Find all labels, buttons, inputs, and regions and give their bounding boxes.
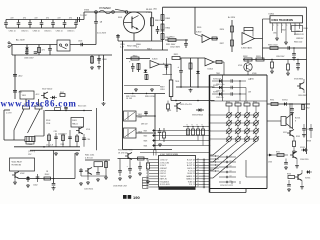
right column parts bbox=[302, 104, 310, 110]
svg-text:R9: R9 bbox=[146, 165, 148, 167]
rectifier row 1 bbox=[212, 79, 246, 83]
rail y48 drop bbox=[292, 47, 296, 60]
svg-text:C9: C9 bbox=[197, 177, 199, 179]
diode VD955 with label bbox=[300, 147, 309, 161]
svg-text:VD956: VD956 bbox=[305, 178, 310, 180]
svg-text:472: 472 bbox=[23, 17, 26, 19]
svg-text:R840: R840 bbox=[304, 28, 308, 30]
cap near V953 bbox=[287, 180, 291, 192]
opto wire bbox=[255, 19, 263, 60]
capacitor C003 bbox=[52, 179, 56, 191]
svg-text:C961 470u: C961 470u bbox=[216, 84, 224, 86]
svg-text:C812 360V: C812 360V bbox=[170, 47, 181, 49]
speaker cluster labels bbox=[268, 132, 300, 164]
svg-text:4.3M: 4.3M bbox=[138, 117, 143, 119]
svg-text:C116: C116 bbox=[87, 139, 91, 141]
svg-text:1 VDD 5V: 1 VDD 5V bbox=[160, 160, 169, 162]
mains wire lower bbox=[12, 45, 112, 56]
left board extra labels bbox=[6, 112, 67, 136]
secondary board outer bottom corner bbox=[210, 189, 247, 193]
svg-text:1K 473 560: 1K 473 560 bbox=[118, 152, 128, 154]
ladder capacitor C907 bbox=[74, 20, 78, 29]
ground sym 2 bbox=[150, 88, 154, 92]
svg-text:8 AFT-IN: 8 AFT-IN bbox=[160, 178, 168, 181]
svg-text:C9: C9 bbox=[197, 167, 199, 169]
label AC220V bbox=[16, 39, 25, 42]
power switch S801 bbox=[115, 9, 128, 13]
secondary board frame left bus bbox=[209, 75, 211, 193]
resistor R821 bbox=[172, 54, 180, 59]
IR transistor V101 bbox=[76, 127, 90, 134]
svg-text:C962 100u: C962 100u bbox=[216, 91, 224, 93]
labels above sound rail bbox=[270, 100, 288, 102]
connector to CRT bbox=[78, 15, 89, 22]
capacitor C806 on AC rail bbox=[24, 52, 34, 60]
IC901 left pin stubs bbox=[146, 160, 158, 189]
svg-text:6: 6 bbox=[291, 25, 292, 27]
svg-text:2: 2 bbox=[273, 25, 274, 27]
svg-text:C952: C952 bbox=[306, 108, 310, 110]
matrix fan wire 3 bbox=[210, 141, 248, 170]
feedback resistor R828 bbox=[244, 28, 253, 37]
secondary board frame right bbox=[266, 75, 268, 189]
board bottom rail 1 bbox=[14, 146, 80, 148]
svg-text:9V REG IN: 9V REG IN bbox=[12, 165, 22, 167]
left spine wire bbox=[14, 55, 16, 99]
svg-text:R818 C816: R818 C816 bbox=[145, 96, 155, 98]
mains line with fuse bbox=[84, 11, 152, 13]
cap C112 on row bbox=[64, 107, 68, 111]
svg-text:G-OUT 27: G-OUT 27 bbox=[187, 162, 195, 164]
diode VD402 bbox=[50, 96, 57, 100]
svg-text:B-OUT 26: B-OUT 26 bbox=[187, 165, 195, 167]
rect caps to rail bbox=[240, 81, 246, 101]
svg-text:C9: C9 bbox=[197, 158, 199, 160]
labels near regulator bbox=[28, 151, 36, 156]
diode VD954 bbox=[284, 102, 293, 106]
matrix transistor VS33 bbox=[244, 128, 250, 136]
capacitor C810 bbox=[184, 40, 188, 48]
svg-text:BAND2 21: BAND2 21 bbox=[187, 178, 195, 181]
ladder capacitor C901 bbox=[4, 20, 8, 29]
svg-text:C9: C9 bbox=[230, 181, 232, 183]
rectifier row 2 bbox=[212, 85, 246, 89]
svg-text:R9: R9 bbox=[146, 170, 148, 172]
T403 output wire bbox=[136, 132, 156, 134]
label 360V bbox=[170, 47, 181, 49]
zener ZD801 bbox=[38, 45, 45, 56]
svg-text:C901 1n: C901 1n bbox=[9, 31, 16, 33]
svg-text:R011 C011: R011 C011 bbox=[85, 155, 94, 157]
drop cap 1 bbox=[118, 159, 122, 181]
matrix fan wire 2 bbox=[210, 141, 239, 162]
svg-text:C824 16V: C824 16V bbox=[276, 56, 285, 58]
keyline row SW1 bbox=[144, 129, 211, 135]
labels under mid rail bbox=[126, 96, 155, 100]
transistor V952 bbox=[290, 152, 297, 159]
IC801 label above bbox=[269, 14, 275, 16]
dropper resistor R802 bbox=[90, 55, 94, 70]
ecap C820 bbox=[144, 111, 148, 116]
svg-text:7 KEY-2: 7 KEY-2 bbox=[160, 176, 166, 178]
top distribution rail bbox=[163, 6, 307, 8]
relay RL801 box bbox=[57, 40, 70, 51]
svg-text:R821: R821 bbox=[174, 54, 179, 56]
secondary board frame bottom bbox=[210, 188, 268, 190]
IC801 pin to rail y48 bbox=[276, 43, 278, 48]
V952 emitter ground bbox=[295, 159, 299, 169]
sense wire up bbox=[53, 150, 55, 178]
svg-text:R827: R827 bbox=[220, 43, 224, 45]
svg-text:R812 330K: R812 330K bbox=[127, 45, 138, 47]
matrix fan wire 1 bbox=[210, 141, 230, 155]
svg-text:R819: R819 bbox=[160, 87, 165, 89]
svg-text:T401: T401 bbox=[22, 95, 26, 97]
svg-text:472: 472 bbox=[10, 17, 13, 19]
comb part 2 bbox=[54, 131, 58, 147]
svg-text:+: + bbox=[129, 61, 131, 64]
svg-text:R814: R814 bbox=[133, 55, 138, 57]
svg-text:C803: C803 bbox=[78, 41, 82, 43]
svg-text:POWER: POWER bbox=[99, 6, 111, 10]
svg-text:8: 8 bbox=[300, 25, 301, 27]
chopper drive vertical bus bbox=[122, 41, 124, 150]
inner rail y101 bbox=[211, 100, 267, 102]
svg-text:IC803: IC803 bbox=[152, 59, 158, 61]
svg-text:AC2: AC2 bbox=[19, 75, 24, 78]
svg-text:R953: R953 bbox=[296, 136, 300, 138]
collector wire v155 bbox=[154, 94, 156, 150]
label 7.4-1.7 bbox=[46, 144, 54, 146]
resistor R002 bbox=[44, 171, 51, 180]
label C819 under rail bbox=[180, 104, 193, 106]
svg-text:C115: C115 bbox=[54, 131, 58, 133]
V951 collector wire bbox=[289, 103, 290, 128]
bus stubs right of frame bbox=[210, 155, 220, 171]
V953 collector parts bbox=[302, 170, 312, 180]
svg-text:C828 5V: C828 5V bbox=[296, 38, 304, 40]
matrix transistor VS21 bbox=[235, 112, 241, 120]
ground rail under IC803a bbox=[124, 85, 160, 87]
mains wire upper bbox=[12, 44, 57, 46]
rectifier row value labels bbox=[216, 79, 252, 99]
cluster B top wire bbox=[118, 158, 149, 160]
V953 emitter ground bbox=[300, 181, 304, 190]
svg-text:T801: T801 bbox=[175, 81, 179, 83]
matrix transistor VS42 bbox=[253, 120, 259, 128]
svg-text:R811 360V: R811 360V bbox=[166, 44, 176, 46]
IC901 bottom bar bbox=[159, 187, 196, 190]
svg-text:C808: C808 bbox=[102, 59, 107, 61]
svg-text:R402: R402 bbox=[60, 92, 64, 94]
resistor R801 on switched line bbox=[151, 12, 161, 41]
regulator box bbox=[10, 158, 35, 171]
svg-text:4OC: 4OC bbox=[36, 94, 41, 96]
svg-text:TUNE 20: TUNE 20 bbox=[188, 181, 195, 183]
svg-text:+: + bbox=[163, 62, 165, 65]
capacitor C804 bbox=[48, 45, 52, 56]
svg-text:4: 4 bbox=[282, 25, 283, 27]
right border wire bbox=[306, 7, 308, 154]
svg-text:5: 5 bbox=[286, 25, 287, 27]
comparator IC803a bbox=[150, 59, 160, 69]
svg-text:C905 1n: C905 1n bbox=[56, 31, 63, 33]
slanted wire 2 bbox=[28, 109, 41, 133]
svg-text:V951: V951 bbox=[283, 132, 287, 134]
svg-text:48V 14V: 48V 14V bbox=[141, 124, 148, 126]
svg-text:R9: R9 bbox=[244, 101, 246, 103]
svg-text:C903 1n: C903 1n bbox=[33, 31, 40, 33]
startup resistor chain R803-R805 bbox=[161, 7, 170, 50]
svg-text:R809: R809 bbox=[197, 27, 201, 29]
matrix transistor VS23 bbox=[235, 128, 241, 136]
output rail y178.5 bbox=[19, 178, 75, 180]
svg-text:472: 472 bbox=[46, 17, 49, 19]
cluster A ground 1 bbox=[86, 174, 90, 185]
svg-text:VCC 18: VCC 18 bbox=[189, 187, 195, 189]
driver transistor V801 bbox=[167, 103, 181, 113]
svg-text:C9: C9 bbox=[230, 166, 232, 168]
secondary winding wire bbox=[222, 75, 224, 101]
svg-text:VOL 19: VOL 19 bbox=[189, 184, 195, 186]
svg-text:SW2: SW2 bbox=[144, 136, 148, 138]
svg-text:C819 470u 25V: C819 470u 25V bbox=[180, 104, 193, 106]
board right edge wire bbox=[92, 108, 97, 150]
svg-text:PTC: PTC bbox=[146, 12, 151, 14]
svg-text:S801: S801 bbox=[118, 17, 122, 19]
svg-text:VD86: VD86 bbox=[252, 73, 257, 75]
mains plug P801 bbox=[8, 42, 12, 48]
cluster A bottom wire bbox=[81, 175, 107, 177]
cluster cap bbox=[284, 159, 288, 170]
pass transistor V901 circle bbox=[238, 60, 252, 76]
keyline pull-up resistor bank bbox=[187, 124, 205, 135]
resistor R814 bbox=[131, 55, 139, 60]
svg-text:2 OSC 10M: 2 OSC 10M bbox=[160, 162, 170, 164]
svg-text:R842: R842 bbox=[282, 30, 286, 32]
matrix column resistors bbox=[226, 101, 259, 113]
IC901 top-left riser wires bbox=[154, 150, 157, 156]
svg-text:R9: R9 bbox=[146, 173, 148, 175]
error amplifier IC802 bbox=[196, 32, 218, 43]
transformer T401 box bbox=[20, 91, 40, 99]
IC901 right pin stubs with caps bbox=[196, 158, 211, 188]
svg-text:V001 78L09: V001 78L09 bbox=[12, 162, 22, 164]
capacitor C802 bbox=[156, 26, 166, 34]
cluster A bottom labels bbox=[84, 186, 127, 191]
comb part 4 bbox=[68, 130, 72, 147]
opamp input wire bbox=[126, 58, 150, 60]
svg-text:VD820 12V: VD820 12V bbox=[294, 34, 304, 36]
transistor V902 bbox=[125, 153, 132, 160]
resistor R822 vertical bbox=[189, 58, 192, 87]
electrolytic C816 bbox=[163, 58, 168, 75]
cap C951 bbox=[290, 104, 294, 115]
svg-text:R810: R810 bbox=[170, 37, 175, 39]
stage2 input wire bbox=[180, 57, 205, 59]
svg-text:IC901 TMP87CM38N: IC901 TMP87CM38N bbox=[160, 154, 179, 156]
svg-text:V801: V801 bbox=[167, 110, 171, 112]
matrix transistor VS12 bbox=[226, 120, 232, 128]
svg-text:C9: C9 bbox=[197, 169, 199, 171]
svg-text:XS801: XS801 bbox=[84, 10, 89, 12]
svg-text:C963 47u: C963 47u bbox=[216, 97, 223, 99]
svg-text:R9: R9 bbox=[146, 160, 148, 162]
svg-text:SW4: SW4 bbox=[144, 146, 148, 148]
speaker feed wire bbox=[267, 120, 281, 122]
right rail y48 bbox=[263, 47, 307, 49]
svg-text:V402 VD402: V402 VD402 bbox=[42, 89, 52, 91]
svg-text:R958: R958 bbox=[307, 141, 311, 143]
dropper capacitor C808 bbox=[97, 55, 107, 69]
label 115V bbox=[228, 17, 236, 19]
top extra labels bbox=[84, 9, 157, 20]
svg-text:16V: 16V bbox=[248, 92, 252, 94]
svg-text:1A: 1A bbox=[100, 21, 103, 24]
tap L801 bbox=[13, 75, 23, 78]
svg-text:IC801: IC801 bbox=[269, 14, 275, 16]
box N002 bbox=[94, 162, 103, 167]
resistor R823 bbox=[167, 101, 170, 113]
svg-text:4.7K 103: 4.7K 103 bbox=[85, 157, 93, 159]
IC801 top wire bbox=[263, 18, 271, 20]
IC801 pin value labels bbox=[273, 30, 300, 35]
IC801 pin ground 2 bbox=[284, 41, 288, 45]
matrix transistor VS44 bbox=[253, 136, 259, 141]
svg-text:0.01 250V: 0.01 250V bbox=[97, 33, 107, 35]
ecap C825 bbox=[270, 59, 274, 74]
right rail y59.5 bbox=[243, 59, 307, 61]
matrix transistor VS31 bbox=[244, 112, 250, 120]
left frame wire bbox=[4, 110, 25, 140]
svg-text:6 KEY-1: 6 KEY-1 bbox=[160, 173, 166, 175]
svg-text:R826: R826 bbox=[220, 29, 224, 31]
second bottom rail above IC901 bbox=[140, 151, 210, 153]
svg-text:to CRT: to CRT bbox=[6, 112, 13, 115]
wire horizontal under posistor bbox=[118, 40, 163, 42]
svg-text:4 RESET: 4 RESET bbox=[160, 168, 168, 170]
T402 output wire bbox=[136, 115, 156, 117]
matrix transistor VS14 bbox=[226, 136, 232, 141]
cluster A labels bbox=[85, 155, 94, 160]
ladder capacitor C902 bbox=[17, 20, 21, 29]
rectifier row 3 bbox=[212, 92, 246, 96]
mains wire to fuse riser bbox=[70, 44, 96, 46]
svg-text:AC 220V: AC 220V bbox=[16, 39, 25, 42]
svg-text:5 KEY-0: 5 KEY-0 bbox=[160, 170, 166, 172]
drop cap 3 bbox=[138, 162, 142, 176]
degauss capacitor ladder bottom rail bbox=[6, 27, 76, 29]
cluster B labels bbox=[118, 150, 133, 155]
right column cap C955 bbox=[302, 124, 311, 137]
drive transformer T801 winding bbox=[160, 64, 173, 101]
label POWER bbox=[99, 6, 111, 10]
svg-text:IC801 TDA16846N: IC801 TDA16846N bbox=[272, 19, 293, 22]
ladder capacitor C903 bbox=[28, 20, 32, 29]
comb part 1 bbox=[48, 133, 51, 147]
svg-text:IC802: IC802 bbox=[196, 32, 202, 34]
svg-text:MUTE 25: MUTE 25 bbox=[187, 168, 194, 170]
svg-text:C9: C9 bbox=[197, 164, 199, 166]
svg-text:P-ON 24: P-ON 24 bbox=[188, 170, 195, 172]
stage2 ground rail bbox=[176, 86, 215, 88]
svg-text:3 OSC2: 3 OSC2 bbox=[160, 165, 166, 167]
svg-text:R9: R9 bbox=[235, 101, 237, 103]
svg-text:3: 3 bbox=[277, 25, 278, 27]
svg-text:R831 C822: R831 C822 bbox=[268, 45, 278, 47]
resistor R109 on row bbox=[55, 108, 61, 111]
ecap bottom tie wire bbox=[163, 74, 173, 76]
ladder capacitor C904 bbox=[40, 20, 44, 29]
sense wire up right bbox=[74, 153, 76, 179]
mid ground rail bbox=[124, 93, 165, 94]
resistor R831 bbox=[268, 45, 278, 50]
svg-text:C954 R955: C954 R955 bbox=[300, 159, 309, 161]
svg-text:C106 C107: C106 C107 bbox=[58, 134, 67, 136]
resistor R402 bbox=[57, 92, 65, 97]
svg-text:R002: R002 bbox=[45, 174, 50, 176]
keyline row SW4 bbox=[144, 135, 211, 148]
svg-text:C953: C953 bbox=[268, 162, 272, 164]
matrix transistor VS32 bbox=[244, 120, 250, 128]
IC901 left pin names bbox=[160, 160, 171, 189]
svg-text:C906 1n: C906 1n bbox=[67, 31, 74, 33]
matrix transistor VS41 bbox=[253, 112, 259, 120]
svg-text:SW3: SW3 bbox=[144, 141, 148, 143]
resistor R120 bbox=[23, 99, 30, 109]
resistor R834 vertical bbox=[286, 60, 290, 76]
audio transistor V951 bbox=[287, 129, 294, 137]
svg-text:R804: R804 bbox=[166, 27, 171, 29]
posistor bottom lead bbox=[133, 33, 135, 41]
caption text bbox=[123, 195, 140, 200]
degauss posistor Q801 (circle) bbox=[124, 8, 145, 34]
svg-text:+: + bbox=[127, 166, 129, 168]
B+ feedback divider wire bbox=[231, 20, 233, 52]
IC901 right pin names bbox=[187, 160, 195, 189]
svg-text:R113: R113 bbox=[61, 144, 65, 146]
divider resistor R827 bbox=[220, 40, 234, 46]
resistor R810 bbox=[168, 37, 176, 42]
ground sym 1 bbox=[134, 88, 138, 92]
svg-text:BL901: BL901 bbox=[295, 118, 300, 120]
speaker BL901 bbox=[281, 114, 300, 129]
svg-text:C9: C9 bbox=[197, 175, 199, 177]
label Q801 bbox=[146, 9, 153, 14]
cluster A top wire bbox=[85, 159, 110, 161]
connector P102 hatched bbox=[25, 137, 35, 147]
svg-text:471: 471 bbox=[42, 50, 45, 52]
matrix transistor VS43 bbox=[253, 128, 259, 136]
labels R812 R813 bbox=[127, 45, 152, 50]
labels stage2 bbox=[160, 87, 165, 92]
matrix transistor VS24 bbox=[235, 136, 241, 141]
ladder capacitor C905 bbox=[51, 20, 55, 29]
ground sym stage2 bbox=[189, 89, 193, 93]
svg-text:C9: C9 bbox=[197, 183, 199, 185]
right column cap C956 bbox=[307, 124, 313, 143]
svg-text:R103: R103 bbox=[46, 120, 50, 122]
svg-text:R813: R813 bbox=[147, 48, 152, 50]
svg-text:DEGS 23: DEGS 23 bbox=[187, 173, 194, 175]
parts right of T403 bbox=[158, 128, 166, 147]
divider resistor R826 bbox=[220, 26, 234, 32]
svg-text:R9: R9 bbox=[146, 162, 148, 164]
IC901 body bbox=[159, 156, 196, 187]
mid labels near bus bbox=[216, 73, 257, 81]
svg-text:R9: R9 bbox=[146, 168, 148, 170]
lower cluster rail y155 bbox=[267, 154, 288, 156]
